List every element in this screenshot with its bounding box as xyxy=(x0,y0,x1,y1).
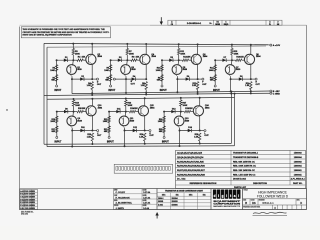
handwritten note xyxy=(253,212,287,213)
transistor Q4 xyxy=(140,54,150,64)
input terminal IN xyxy=(110,85,112,87)
diode D2 xyxy=(80,77,84,80)
resistor R11 (to +10V) xyxy=(178,49,180,55)
number row xyxy=(243,198,307,200)
wire Q9 emitter to rail xyxy=(69,125,72,128)
output terminal J xyxy=(92,130,96,132)
resistor R20 (emitter load) xyxy=(91,133,93,141)
svg-text:D: D xyxy=(300,202,302,205)
svg-text:D1: D1 xyxy=(217,22,219,24)
resistor R1 (input lower) xyxy=(55,75,57,82)
svg-text:DIODE D-664: DIODE D-664 xyxy=(233,178,247,181)
input terminal IN xyxy=(108,136,110,138)
transistor Q14 xyxy=(193,106,203,116)
bus GND (C) xyxy=(44,93,270,95)
output terminal F xyxy=(198,78,202,80)
node input-top unit 7 xyxy=(163,111,165,113)
output terminal H xyxy=(251,78,255,80)
resistor R7 (to +10V) xyxy=(126,49,128,55)
wire output row unit 6 xyxy=(125,130,145,132)
resistor R14 (input upper) xyxy=(214,65,216,72)
svg-text:R2,R6,R10,R14,R18,R22,R26: R2,R6,R10,R14,R18,R22,R26 xyxy=(177,165,206,168)
svg-text:g: g xyxy=(222,194,224,198)
diode D7 xyxy=(222,59,226,62)
wire output row unit 7 xyxy=(180,130,200,132)
drawing number strip xyxy=(168,20,282,25)
wire Q8 collector to +10V bus xyxy=(250,45,252,55)
svg-text:15K: 15K xyxy=(187,57,191,59)
svg-text:D1 - D14: D1 - D14 xyxy=(177,178,186,181)
resistor R16 (emitter load) xyxy=(250,82,252,90)
svg-text:100K: 100K xyxy=(103,121,108,123)
output terminal L xyxy=(200,130,204,132)
svg-text:1.5K: 1.5K xyxy=(87,85,92,87)
fold mark arrow top xyxy=(160,17,162,22)
svg-text:RES. 68K 1/4W 5% CC: RES. 68K 1/4W 5% CC xyxy=(233,160,255,163)
svg-text:2-27-64: 2-27-64 xyxy=(143,202,151,205)
svg-text:1.5K: 1.5K xyxy=(87,136,92,138)
svg-text:1.5K: 1.5K xyxy=(139,136,144,138)
wire Q7 emitter to rail xyxy=(228,74,231,77)
resistor R8 (base of Q4) xyxy=(127,59,131,61)
svg-text:i: i xyxy=(218,194,219,198)
diode D14 xyxy=(188,129,192,132)
node base junction unit 7 xyxy=(180,111,182,113)
svg-text:100K: 100K xyxy=(75,53,80,55)
wire to diode unit 6 xyxy=(109,111,126,113)
wire Q6 collector to +10V bus xyxy=(197,44,199,55)
svg-text:100K: 100K xyxy=(183,105,188,107)
svg-text:D-DS-W510-0-1: D-DS-W510-0-1 xyxy=(187,23,202,25)
svg-text:2894-1: 2894-1 xyxy=(158,197,163,200)
svg-text:C GND: C GND xyxy=(273,93,280,95)
svg-text:R4,R8,R12,R16,R20,R24,R28: R4,R8,R12,R16,R20,R24,R28 xyxy=(177,173,206,176)
wire input lead unit 4 xyxy=(214,60,216,85)
wire Q1 emitter to rail xyxy=(69,74,72,77)
wire output row unit 3 xyxy=(177,78,197,80)
svg-text:3-2-64: 3-2-64 xyxy=(143,207,150,210)
wire Q14 collector to +10V bus xyxy=(199,98,201,107)
svg-text:100K: 100K xyxy=(158,121,163,123)
resistor R4 (emitter load) xyxy=(91,82,93,90)
svg-text:d: d xyxy=(214,194,216,198)
svg-text:2N2894: 2N2894 xyxy=(172,197,178,200)
svg-text:1300041: 1300041 xyxy=(294,173,303,176)
svg-text:15K: 15K xyxy=(82,57,86,59)
wire Q13 emitter to rail xyxy=(177,125,180,128)
resistor R27 (to +10V) xyxy=(180,100,182,106)
revision history block xyxy=(20,190,38,210)
sign-off block xyxy=(114,189,158,210)
transistor Q8 xyxy=(244,54,254,64)
node output junction unit 3 xyxy=(197,78,199,80)
wire output row unit 1 xyxy=(72,78,92,80)
svg-text:15K: 15K xyxy=(134,108,138,110)
input terminal IN xyxy=(214,85,216,87)
resistor R25 (input lower) xyxy=(163,126,165,133)
node output junction unit 6 xyxy=(144,130,146,132)
node input-top unit 6 xyxy=(108,111,110,113)
wire to diode unit 5 xyxy=(57,111,74,113)
svg-text:l: l xyxy=(238,194,239,198)
parts list table xyxy=(176,150,306,188)
node output junction unit 4 xyxy=(250,78,252,80)
resistor R26 (input upper) xyxy=(163,116,165,123)
svg-text:68K: 68K xyxy=(210,80,214,82)
resistor R28 (base of Q14) xyxy=(181,111,185,113)
svg-text:PL: PL xyxy=(269,24,271,26)
wire output row unit 4 xyxy=(231,78,251,80)
transistor Q5 xyxy=(177,60,180,65)
svg-text:DS: DS xyxy=(252,202,256,205)
resistor R10 (input upper) xyxy=(161,65,163,72)
transistor and diode conversion chart xyxy=(157,189,211,210)
svg-text:INPUT: INPUT xyxy=(55,142,62,144)
bus lower row upper (D) xyxy=(44,142,231,145)
title block xyxy=(243,189,307,210)
svg-text:RIGHT 1964 BY DIGITAL EQUIPMEN: RIGHT 1964 BY DIGITAL EQUIPMENT CORPORAT… xyxy=(23,34,73,37)
svg-text:68K: 68K xyxy=(51,80,55,82)
wire Q14 emitter down xyxy=(199,115,201,130)
output terminal D xyxy=(92,78,96,80)
svg-text:1.5K: 1.5K xyxy=(141,85,146,87)
node base junction unit 4 xyxy=(231,59,233,61)
bus -15V emitter rail (B) xyxy=(72,91,270,94)
svg-text:100K: 100K xyxy=(129,53,134,55)
resistor R24 (emitter load) xyxy=(144,133,146,141)
diode D13 xyxy=(171,110,175,113)
resistor R2 (input upper) xyxy=(55,65,57,72)
resistor R6 (input upper) xyxy=(109,65,111,72)
svg-text:A-PL-W510-0-1: A-PL-W510-0-1 xyxy=(291,178,306,181)
resistor R12 (base of Q6) xyxy=(179,59,183,61)
svg-text:15K: 15K xyxy=(136,57,140,59)
svg-text:1500063: 1500063 xyxy=(294,153,303,155)
node base junction unit 6 xyxy=(125,111,127,113)
wire output row unit 5 xyxy=(72,130,92,132)
svg-text:REFERENCE DESIGNATION: REFERENCE DESIGNATION xyxy=(190,182,217,185)
resistor R8 (emitter load) xyxy=(145,82,147,90)
svg-text:100K: 100K xyxy=(75,105,80,107)
wire Q5 emitter to rail xyxy=(175,74,178,77)
diode D8 xyxy=(239,77,243,80)
transistor Q3 xyxy=(126,60,129,65)
svg-text:TRANSISTOR & DIODE CONVERSION: TRANSISTOR & DIODE CONVERSION CHART xyxy=(165,190,204,193)
resistor R4 (base of Q2) xyxy=(73,59,77,61)
input terminal IN xyxy=(56,85,58,87)
wire to diode unit 7 xyxy=(164,111,181,113)
wire to diode unit 1 xyxy=(57,59,74,61)
node base junction unit 5 xyxy=(73,111,75,113)
svg-text:Q1,Q3,Q5,Q7,Q9,Q11,Q13: Q1,Q3,Q5,Q7,Q9,Q11,Q13 xyxy=(177,153,203,155)
svg-text:1N3606: 1N3606 xyxy=(172,204,178,206)
svg-text:B: B xyxy=(245,202,247,205)
svg-text:INPUT: INPUT xyxy=(107,142,114,144)
svg-text:2-27-64: 2-27-64 xyxy=(143,191,151,194)
svg-text:TRANSISTOR DEC2894-1: TRANSISTOR DEC2894-1 xyxy=(233,152,259,155)
diode D12 xyxy=(133,129,137,132)
svg-text:PRINTED CIRCUIT REV.: PRINTED CIRCUIT REV. xyxy=(243,206,260,208)
resistor R28 (emitter load) xyxy=(199,133,201,141)
svg-text:100K: 100K xyxy=(180,53,185,55)
title band top line xyxy=(20,188,307,190)
svg-text:2: 2 xyxy=(278,22,279,24)
wire output row unit 2 xyxy=(115,78,146,80)
output terminal K xyxy=(145,130,149,132)
node input-top unit 2 xyxy=(110,59,112,61)
svg-text:THIS SCHEMATIC IS FURNISHED ON: THIS SCHEMATIC IS FURNISHED ONLY FOR TES… xyxy=(23,28,106,31)
svg-text:INPUT: INPUT xyxy=(54,90,61,92)
terminal B -15V xyxy=(270,90,272,92)
svg-text:68K: 68K xyxy=(52,131,56,133)
wire Q12 emitter down xyxy=(144,115,146,130)
fold mark arrow bottom xyxy=(155,212,158,216)
node base junction unit 3 xyxy=(178,59,180,61)
svg-text:1: 1 xyxy=(226,22,227,24)
svg-text:INPUT: INPUT xyxy=(162,142,169,144)
diode D1 xyxy=(64,59,68,62)
svg-text:A. BLUMENTHAL: A. BLUMENTHAL xyxy=(116,202,133,205)
registration mark left edge xyxy=(6,109,7,110)
diode D3 xyxy=(118,59,122,62)
output terminal E xyxy=(113,78,115,80)
svg-text:100K: 100K xyxy=(50,121,55,123)
node input-top unit 5 xyxy=(56,111,58,113)
svg-text:PART NO.: PART NO. xyxy=(293,182,303,185)
svg-text:INPUT: INPUT xyxy=(213,90,220,92)
wire Q4 emitter down xyxy=(145,64,147,79)
input terminal IN xyxy=(56,136,58,138)
svg-text:H. HOLBROOK: H. HOLBROOK xyxy=(116,197,131,199)
wire input lead unit 3 xyxy=(161,60,163,85)
svg-text:68K: 68K xyxy=(105,80,109,82)
svg-text:1300064: 1300064 xyxy=(294,165,303,168)
svg-text:RES. 1.5K 1/4W 5% CC: RES. 1.5K 1/4W 5% CC xyxy=(233,173,256,176)
diode D10 xyxy=(80,129,84,132)
svg-text:FOLLOWER W510 D: FOLLOWER W510 D xyxy=(257,195,289,199)
node input-top unit 4 xyxy=(214,59,216,61)
svg-text:2-27-64: 2-27-64 xyxy=(143,196,151,199)
svg-text:68K: 68K xyxy=(157,80,161,82)
wire input lead unit 7 xyxy=(163,112,165,137)
node output junction unit 1 xyxy=(91,78,93,80)
wire left vertical outer xyxy=(43,43,45,144)
resistor R21 (input lower) xyxy=(108,126,110,133)
node base junction unit 2 xyxy=(126,59,128,61)
node input-top unit 1 xyxy=(56,59,58,61)
bus lower row lower (E) xyxy=(47,145,235,148)
wire Q2 collector to +10V bus xyxy=(91,44,93,55)
svg-text:D-664: D-664 xyxy=(158,203,163,206)
input terminal IN xyxy=(163,136,165,138)
svg-text:1.5K: 1.5K xyxy=(192,85,197,87)
digital logo xyxy=(211,189,243,210)
svg-text:NONE: NONE xyxy=(215,24,220,26)
svg-text:15K: 15K xyxy=(240,57,244,59)
transistor Q9 xyxy=(72,112,75,117)
resistor R9 (input lower) xyxy=(161,75,163,82)
svg-text:100K: 100K xyxy=(104,70,109,72)
terminal C GND xyxy=(270,92,272,94)
diode D5 xyxy=(169,59,173,62)
node output junction unit 2 xyxy=(145,78,147,80)
node output junction unit 7 xyxy=(199,130,201,132)
svg-text:1.5K: 1.5K xyxy=(194,136,199,138)
transistor Q6 xyxy=(191,54,201,64)
svg-text:i: i xyxy=(226,194,227,198)
svg-text:a: a xyxy=(234,194,236,198)
svg-text:1500064: 1500064 xyxy=(294,156,303,159)
diode D9 xyxy=(64,110,68,113)
svg-text:RES. 15K 1/4W 5% CC: RES. 15K 1/4W 5% CC xyxy=(233,169,255,172)
svg-text:1300061: 1300061 xyxy=(294,170,303,172)
wire Q10 emitter down xyxy=(91,115,93,130)
resistor R12 (emitter load) xyxy=(196,82,198,90)
svg-text:A +10V: A +10V xyxy=(273,44,281,47)
resistor R17 (input lower) xyxy=(56,126,58,133)
wire Q6 emitter down xyxy=(197,64,199,79)
resistor R24 (base of Q12) xyxy=(126,111,130,113)
wire input lead unit 2 xyxy=(110,60,112,85)
svg-text:2N3639: 2N3639 xyxy=(172,201,178,203)
resistor R5 (input lower) xyxy=(109,75,111,82)
resistor R15 (to +10V) xyxy=(231,49,233,55)
svg-text:100K: 100K xyxy=(50,70,55,72)
svg-text:100K: 100K xyxy=(209,70,214,72)
svg-text:INPUT: INPUT xyxy=(108,90,115,92)
wire to diode unit 3 xyxy=(162,59,179,61)
wire Q3 emitter to rail xyxy=(123,74,126,77)
svg-text:1300063: 1300063 xyxy=(294,161,303,163)
svg-text:J. SMITH: J. SMITH xyxy=(116,208,125,210)
svg-text:DESCRIPTION: DESCRIPTION xyxy=(253,183,267,185)
transistor Q1 xyxy=(72,60,75,65)
wire right riser inner xyxy=(234,94,236,146)
input terminal IN xyxy=(161,85,163,87)
svg-text:TRANSISTOR DEC3639-B: TRANSISTOR DEC3639-B xyxy=(233,156,259,159)
resistor R19 (to +10V) xyxy=(72,100,74,106)
svg-text:R3,R7,R11,R15,R19,R23,R27: R3,R7,R11,R15,R19,R23,R27 xyxy=(177,170,206,172)
bus +10V (A) lower line xyxy=(47,46,266,47)
wire Q11 emitter to rail xyxy=(122,125,125,128)
node output junction unit 5 xyxy=(91,130,93,132)
wire Q10 collector to +10V bus xyxy=(91,99,93,107)
svg-text:100K: 100K xyxy=(128,105,133,107)
svg-text:W510-0-1: W510-0-1 xyxy=(262,201,274,205)
node input-top unit 3 xyxy=(161,59,163,61)
svg-text:68K: 68K xyxy=(159,131,163,133)
svg-text:C. COLBY: C. COLBY xyxy=(116,192,126,194)
resistor R16 (base of Q8) xyxy=(232,59,236,61)
terminal A +10V xyxy=(268,44,270,46)
wire input lead unit 6 xyxy=(108,112,110,137)
wire Q2 emitter down xyxy=(91,64,93,79)
svg-text:1.5K: 1.5K xyxy=(245,85,250,87)
notice box xyxy=(21,27,110,38)
node base junction unit 1 xyxy=(72,59,74,61)
svg-text:15K: 15K xyxy=(82,108,86,110)
svg-text:INPUT: INPUT xyxy=(160,90,167,92)
drawing sheet frame xyxy=(20,24,151,26)
module connector strip xyxy=(114,164,172,173)
wire Q4 collector to +10V bus xyxy=(145,44,147,55)
svg-text:100K: 100K xyxy=(234,53,239,55)
wire input lead unit 5 xyxy=(56,112,58,137)
wire input lead unit 1 xyxy=(56,60,58,85)
diode D11 xyxy=(116,110,120,113)
svg-text:TITLE: TITLE xyxy=(244,190,248,192)
svg-text:RES. 100K 1/4W 5% CC: RES. 100K 1/4W 5% CC xyxy=(233,165,256,168)
svg-text:CORPORATION: CORPORATION xyxy=(213,202,241,205)
resistor R3 (to +10V) xyxy=(72,49,74,55)
wire to diode unit 4 xyxy=(215,59,232,61)
svg-text:Q2,Q4,Q6,Q8,Q10,Q12,Q14: Q2,Q4,Q6,Q8,Q10,Q12,Q14 xyxy=(177,156,204,159)
resistor R13 (input lower) xyxy=(214,75,216,82)
transistor Q12 xyxy=(138,106,148,116)
wire Q8 emitter down xyxy=(250,64,252,79)
svg-text:B -15V: B -15V xyxy=(273,91,280,93)
svg-text:DRA 102: DRA 102 xyxy=(21,213,28,216)
eco row xyxy=(243,204,307,206)
transistor Q2 xyxy=(86,54,96,64)
diode D4 xyxy=(132,77,136,80)
diode D6 xyxy=(186,77,190,80)
transistor Q7 xyxy=(230,60,233,65)
svg-text:G 5-1: G 5-1 xyxy=(20,208,24,210)
wire Q12 collector to +10V bus xyxy=(144,98,146,106)
svg-text:68K: 68K xyxy=(104,131,108,133)
transistor Q13 xyxy=(179,112,182,117)
rail bottom-row supply xyxy=(47,97,235,99)
svg-text:15K: 15K xyxy=(189,108,193,110)
resistor R22 (input upper) xyxy=(108,116,110,123)
wire right riser outer xyxy=(230,92,232,144)
svg-text:3639B: 3639B xyxy=(158,201,164,203)
svg-text:100K: 100K xyxy=(156,70,161,72)
transistor Q10 xyxy=(86,106,96,116)
transistor Q11 xyxy=(124,112,127,117)
resistor R23 (to +10V) xyxy=(125,100,127,106)
wire to diode unit 2 xyxy=(111,59,128,61)
wire left vertical inner xyxy=(46,47,48,146)
bus +10V (A) upper xyxy=(44,43,268,44)
resistor R20 (base of Q10) xyxy=(74,111,78,113)
resistor R18 (input upper) xyxy=(56,116,58,123)
svg-text:R1,R5,R9,R13,R17,R21,R25: R1,R5,R9,R13,R17,R21,R25 xyxy=(177,161,205,163)
svg-text:CIRCUITS ARE PROPRIETARY IN NA: CIRCUITS ARE PROPRIETARY IN NATURE AND S… xyxy=(23,31,110,34)
